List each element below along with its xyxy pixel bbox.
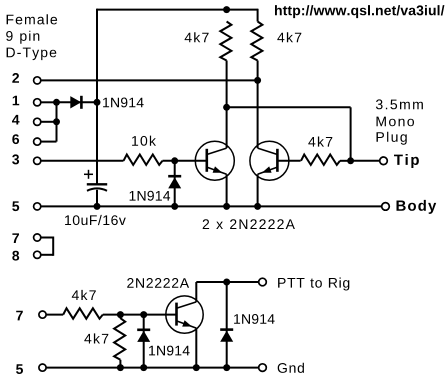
pin 6 (D-type) <box>12 134 41 145</box>
wire Q3 collector to PTT <box>196 281 258 283</box>
label 4k7 (R1) <box>185 32 209 42</box>
label 4k7 (R5) <box>72 290 96 300</box>
wire pin 6 stub <box>41 102 57 142</box>
resistor R3 10k <box>124 155 208 165</box>
terminal Gnd <box>259 364 267 372</box>
label 1N914 (D4) <box>234 314 275 324</box>
diode D2 1N914 (base clamp) <box>168 161 181 207</box>
label Tip <box>394 154 419 168</box>
label 1N914 (D1) <box>103 98 144 108</box>
node R5 / R6 <box>117 311 124 318</box>
label Body <box>397 200 437 214</box>
wire pin 3 row <box>41 160 124 162</box>
wire Q1 collector branch <box>227 107 351 161</box>
node base / D3 <box>140 311 147 318</box>
wire to tip terminal <box>351 160 380 162</box>
transistor Q3 2N2222A (PTT switch) <box>166 282 203 368</box>
wire jumper pins 7-8 <box>41 237 53 256</box>
resistor R5 4k7 (series) <box>63 308 176 318</box>
pin 7 (D-type) <box>12 233 40 243</box>
capacitor C1 10uF/16v <box>84 170 107 191</box>
node C1 negative <box>94 203 101 210</box>
wire pin 7 row <box>46 314 63 316</box>
pin 3 (D-type) <box>12 154 41 164</box>
pin 4 (D-type) <box>12 115 41 126</box>
node Q1 collector / R1 / tip branch <box>223 104 230 111</box>
label 4k7 (R4) <box>308 137 332 147</box>
transistor Q2 2N2222A (right, mirrored) <box>250 80 289 206</box>
label "Female 9 pin D-Type" <box>6 14 57 60</box>
label 1N914 (D3) <box>149 346 190 356</box>
node D1 cathode / rail <box>94 99 101 106</box>
node Q2 emitter <box>254 203 261 210</box>
label 4k7 (R6) <box>84 333 108 343</box>
pin 7 (PTT input) <box>16 311 46 321</box>
resistor R1 4k7 (left pull-up) <box>220 22 231 108</box>
resistor R4 4k7 (to tip) <box>301 155 351 165</box>
label Gnd <box>278 363 304 373</box>
pin 2 (D-type) <box>12 73 41 84</box>
label 1N914 (D2) <box>130 191 171 201</box>
wire supply rail vertical <box>96 9 98 184</box>
label PTT to Rig <box>278 278 349 291</box>
resistor R2 4k7 (right pull-up) <box>251 9 262 81</box>
node D4 anode <box>223 364 230 371</box>
label 4k7 (R2) <box>277 32 301 42</box>
wire pin 2 row <box>41 79 258 81</box>
node pin4 junction <box>53 118 60 125</box>
node tip junction <box>347 157 354 164</box>
node D4 cathode <box>223 279 230 286</box>
terminal PTT to Rig <box>259 278 267 286</box>
node Q3 emitter <box>193 364 200 371</box>
wire Q2 base to R4 <box>277 160 300 162</box>
terminal Body <box>382 203 390 211</box>
node top rail / R1 <box>223 6 230 13</box>
wire pin 4 stub <box>41 121 57 123</box>
wire pin 1 to diode D1 <box>41 101 57 103</box>
label 10uF/16v <box>65 215 126 225</box>
wire pin 5 ground row <box>46 367 259 369</box>
wire pin 5 body row <box>41 205 382 207</box>
wire supply rail below capacitor <box>96 190 98 207</box>
node Q1 base / D2 <box>171 157 178 164</box>
label 2 x 2N2222A <box>203 219 295 229</box>
diode D3 1N914 (base clamp) <box>137 315 150 368</box>
wire top horizontal <box>97 9 258 11</box>
node D3 anode <box>140 364 147 371</box>
node D2 anode <box>171 203 178 210</box>
label 10k <box>132 136 156 146</box>
node pin1 junction <box>53 99 60 106</box>
pin 5 (D-type) <box>12 201 41 211</box>
diode D4 1N914 (flyback) <box>220 282 233 368</box>
pin 5 (ground) <box>16 364 46 374</box>
pin 1 (D-type) <box>13 96 41 106</box>
transistor Q1 2N2222A (left) <box>195 107 234 206</box>
node R6 bottom <box>117 364 124 371</box>
label 2N2222A (Q3) <box>127 278 189 288</box>
diode D1 1N914 (horizontal) <box>57 96 98 109</box>
node pin2 / R2 / Q2 collector <box>254 77 261 84</box>
terminal Tip <box>380 157 388 165</box>
label website address text (qsl.net/va3iul) <box>275 5 444 18</box>
label 3.5mm Mono Plug <box>376 99 423 144</box>
node Q1 emitter <box>223 203 230 210</box>
resistor R6 4k7 (base pulldown) <box>114 315 125 368</box>
pin 8 (D-type) <box>12 251 41 261</box>
